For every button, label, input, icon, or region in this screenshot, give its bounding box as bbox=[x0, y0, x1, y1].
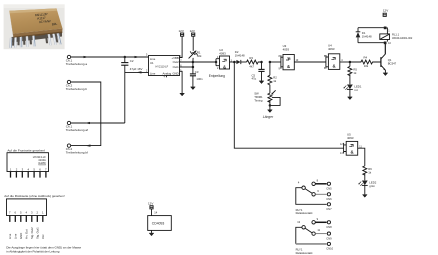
svg-text:47µ: 47µ bbox=[252, 77, 257, 81]
svg-text:Line: Line bbox=[150, 71, 156, 75]
wire U1 Out2 to U2 bbox=[180, 61, 217, 63]
relay contact group 2 RLY1 bbox=[296, 217, 334, 255]
wire conn1 to U1 bbox=[71, 56, 149, 58]
svg-text:&: & bbox=[350, 150, 353, 155]
ground LED1 bbox=[348, 97, 353, 100]
svg-text:CN7: CN7 bbox=[326, 207, 332, 211]
svg-text:GND: GND bbox=[19, 233, 23, 239]
wire U1 Out1 to C3 bbox=[180, 66, 193, 68]
resistor R4 10k bbox=[350, 56, 381, 68]
svg-text:&: & bbox=[332, 64, 335, 69]
svg-text:Entprellung: Entprellung bbox=[209, 74, 225, 78]
wire node to U5 input bbox=[234, 62, 343, 148]
svg-text:14: 14 bbox=[154, 211, 157, 215]
svg-text:CD4093: CD4093 bbox=[152, 221, 165, 225]
throw 1 to CN5 bbox=[312, 182, 315, 185]
svg-text:13: 13 bbox=[340, 152, 343, 155]
svg-text:Out2: Out2 bbox=[173, 60, 180, 64]
throw 2 to CN9 bbox=[312, 232, 315, 235]
ground C5 bbox=[259, 81, 264, 84]
svg-text:C3: C3 bbox=[195, 70, 199, 74]
ground LED2 bbox=[363, 195, 368, 198]
wire R1 to node bbox=[192, 58, 194, 62]
svg-text:Treiberleitung.a: Treiberleitung.a bbox=[66, 62, 88, 66]
svg-text:in Abhängigkeit der Polarität: in Abhängigkeit der Polarität der Leitun… bbox=[6, 249, 60, 253]
svg-text:1N4148: 1N4148 bbox=[235, 53, 245, 57]
wire conn2 to conn4 bbox=[71, 82, 101, 146]
svg-text:Sig. Out1: Sig. Out1 bbox=[35, 227, 39, 239]
svg-text:C2: C2 bbox=[130, 59, 134, 63]
svg-text:8: 8 bbox=[279, 55, 281, 58]
svg-text:12: 12 bbox=[340, 143, 343, 146]
capacitor C2 47uF bbox=[121, 56, 142, 123]
note text bottom bbox=[6, 246, 81, 254]
wire relay bottom rail bbox=[358, 43, 385, 54]
svg-text:CN5: CN5 bbox=[326, 187, 332, 191]
capacitor C5 47u bbox=[252, 61, 265, 81]
svg-text:11: 11 bbox=[317, 228, 320, 232]
svg-text:50k: 50k bbox=[197, 54, 202, 58]
svg-text:47µF 16V: 47µF 16V bbox=[130, 67, 143, 71]
svg-text:CN8: CN8 bbox=[326, 225, 332, 229]
svg-text:10k: 10k bbox=[364, 64, 369, 68]
NAND gate U4 4093 bbox=[324, 43, 350, 70]
NAND gate U3 4093 bbox=[270, 44, 326, 70]
svg-text:Relaiskontakt: Relaiskontakt bbox=[296, 211, 313, 215]
pinout box front view bbox=[7, 149, 49, 178]
svg-text:13: 13 bbox=[297, 220, 300, 224]
pinout box rear view bbox=[4, 194, 65, 239]
chip marking text bbox=[35, 11, 58, 27]
op-amp hybrid U1 HY2113 bbox=[146, 53, 182, 78]
svg-text:1k: 1k bbox=[368, 170, 372, 174]
svg-text:12V: 12V bbox=[383, 9, 388, 13]
ground Q1 emitter bbox=[383, 73, 388, 76]
wire C2 node to U1 lower Line pin bbox=[125, 71, 149, 73]
mover contact bbox=[305, 228, 312, 233]
svg-text:An. Out: An. Out bbox=[24, 229, 28, 239]
svg-text:CN6: CN6 bbox=[326, 197, 332, 201]
throw 1 to CN8 bbox=[312, 221, 315, 224]
svg-text:GND: GND bbox=[172, 71, 178, 75]
svg-text:100n: 100n bbox=[196, 77, 203, 81]
connector Ch.1 Treiberleitung.af bbox=[66, 121, 125, 132]
diode D1 1N4148 bbox=[356, 28, 372, 43]
svg-text:Auf die Rückseite (ohne Aufdru: Auf die Rückseite (ohne Aufdruck) gesehe… bbox=[4, 194, 65, 198]
svg-text:Treiberleitung.b: Treiberleitung.b bbox=[66, 87, 88, 91]
svg-text:Timing: Timing bbox=[254, 99, 263, 103]
svg-text:4093: 4093 bbox=[283, 48, 290, 52]
connector Ch.2 Treiberleitung.b bbox=[66, 80, 101, 145]
12V supply relay bbox=[383, 9, 388, 17]
CD4093 power block bbox=[148, 201, 172, 233]
svg-text:HY2113-LF: HY2113-LF bbox=[156, 65, 169, 68]
wire common to CN10 bbox=[296, 227, 302, 244]
connector CN6 bbox=[327, 193, 330, 196]
svg-text:R4: R4 bbox=[364, 56, 368, 60]
resistor R5 1k (LED1) bbox=[348, 62, 358, 84]
resistor R3 4k7 bbox=[247, 56, 262, 68]
svg-text:&: & bbox=[287, 64, 290, 69]
svg-text:4: 4 bbox=[298, 180, 300, 184]
svg-text:&: & bbox=[223, 64, 226, 69]
svg-text:6: 6 bbox=[317, 189, 319, 193]
transistor Q1 BC547 bbox=[381, 43, 397, 73]
connector CN7 bbox=[327, 203, 330, 206]
resistor R2 1k bbox=[268, 61, 277, 93]
node after U2 / wire down to U5 bbox=[233, 61, 236, 64]
svg-text:rot: rot bbox=[354, 88, 357, 92]
connector CN8 bbox=[327, 221, 330, 224]
svg-text:2: 2 bbox=[217, 67, 219, 70]
throw 2 to CN6 bbox=[312, 193, 315, 196]
svg-text:Relaiskontakt: Relaiskontakt bbox=[296, 251, 313, 255]
svg-text:Treiberleitung.af: Treiberleitung.af bbox=[66, 128, 88, 132]
ground U1 bbox=[180, 93, 185, 96]
svg-text:grün: grün bbox=[369, 184, 375, 188]
connector CN Ch.1 Treiberleitung.a bbox=[66, 55, 149, 66]
svg-text:1N4148: 1N4148 bbox=[362, 35, 372, 39]
svg-text:U1: U1 bbox=[150, 61, 154, 65]
12V supply for U1 bbox=[179, 29, 184, 58]
svg-text:Auf die Frontseite gesehen!: Auf die Frontseite gesehen! bbox=[7, 149, 45, 153]
connector CN5 bbox=[327, 182, 330, 185]
svg-text:(A105): (A105) bbox=[38, 161, 46, 165]
potentiometer R1 50k bbox=[189, 50, 202, 58]
svg-text:9: 9 bbox=[317, 217, 319, 221]
svg-text:CN10: CN10 bbox=[326, 247, 333, 251]
connector Ch.2 Treiberleitung.bf bbox=[66, 144, 91, 155]
ground CD4093 bbox=[149, 233, 154, 236]
NAND gate U5 4093 bbox=[340, 133, 365, 166]
wire conn3 to C2 bottom bbox=[71, 122, 125, 124]
node junction on Out1 line bbox=[192, 66, 195, 69]
LED1 rot bbox=[344, 84, 362, 96]
wire 12V to +VBB bbox=[180, 36, 183, 57]
NAND gate U2 4093 (Entprellung) bbox=[209, 48, 235, 78]
svg-text:1k: 1k bbox=[353, 71, 357, 75]
svg-text:R3: R3 bbox=[249, 56, 253, 60]
svg-text:Sig. Out2: Sig. Out2 bbox=[30, 227, 34, 239]
svg-text:Line: Line bbox=[13, 233, 17, 239]
svg-text:A5040-A0001-002: A5040-A0001-002 bbox=[392, 37, 413, 40]
relay coil RL1.1 bbox=[380, 28, 413, 45]
node U4 output bbox=[349, 61, 352, 64]
svg-text:12V: 12V bbox=[148, 201, 153, 205]
svg-text:5: 5 bbox=[146, 53, 148, 56]
relay contact group 1 RLY1 bbox=[296, 179, 332, 216]
svg-text:CN9: CN9 bbox=[326, 236, 332, 240]
svg-text:9: 9 bbox=[279, 67, 281, 70]
svg-text:12V: 12V bbox=[179, 29, 184, 33]
svg-text:12V: 12V bbox=[190, 29, 195, 33]
wire common to CN7 bbox=[296, 188, 327, 205]
svg-text:4k7: 4k7 bbox=[249, 64, 254, 68]
svg-text:4093: 4093 bbox=[328, 47, 335, 51]
LED2 gruen bbox=[358, 180, 376, 194]
ground TRIM1 bbox=[268, 110, 273, 113]
wire U1 GND to ground bbox=[180, 71, 183, 93]
resistor R6 1k (LED2) bbox=[363, 166, 372, 180]
diode D2 1N4148 bbox=[234, 50, 246, 64]
wire relay top rail bbox=[358, 27, 385, 29]
svg-text:B9L: B9L bbox=[52, 22, 58, 26]
chip pins bbox=[9, 33, 62, 48]
svg-text:1k: 1k bbox=[273, 79, 277, 83]
12V supply for R1 bbox=[190, 29, 195, 51]
svg-text:8: 8 bbox=[317, 179, 319, 183]
svg-text:BC547: BC547 bbox=[388, 62, 397, 66]
svg-text:10: 10 bbox=[388, 42, 391, 45]
connector CN9 bbox=[327, 232, 330, 235]
trimmer TRIM1 Timing bbox=[254, 90, 280, 109]
svg-text:Line: Line bbox=[8, 233, 12, 239]
connector CN10 bbox=[327, 242, 330, 245]
svg-text:Out1: Out1 bbox=[173, 65, 180, 69]
ground C3 bbox=[191, 87, 196, 90]
capacitor C3 100n bbox=[190, 70, 203, 87]
svg-text:Treiberleitung.bf: Treiberleitung.bf bbox=[66, 151, 88, 155]
svg-text:1: 1 bbox=[388, 29, 390, 32]
svg-text:4093: 4093 bbox=[347, 136, 354, 140]
svg-text:Länger: Länger bbox=[263, 115, 274, 119]
svg-text:4093: 4093 bbox=[219, 52, 226, 56]
mover contact bbox=[305, 189, 312, 194]
svg-text:Vcc: Vcc bbox=[41, 234, 45, 239]
